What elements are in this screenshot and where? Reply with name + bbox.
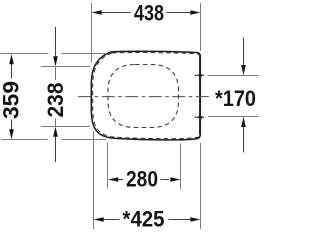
svg-text:438: 438 — [134, 0, 164, 25]
extension line 359 top — [1, 53, 106, 55]
dim 238 arrow up — [53, 127, 58, 137]
extension line 280 left — [107, 142, 109, 189]
svg-text:*170: *170 — [215, 86, 256, 111]
extension line 238 top — [41, 66, 90, 68]
dim 438 shaft left — [102, 12, 131, 14]
dim 280 shaft left — [117, 179, 123, 181]
dim 359 arrow down — [9, 129, 14, 139]
extension line 238 bottom — [41, 126, 90, 128]
seat right edge seam solid — [199, 56, 201, 135]
hinge mark bottom tick — [195, 116, 205, 118]
extension line 170 top — [208, 75, 258, 77]
hinge mark top blob — [198, 73, 204, 77]
dim 238 shaft above — [55, 27, 57, 57]
extension line 280 right — [180, 144, 182, 190]
dim 170 shaft above — [243, 38, 245, 66]
extension line 438 left — [91, 3, 93, 63]
svg-text:238: 238 — [43, 83, 68, 118]
dim 359 shaft upper — [11, 62, 13, 79]
svg-text:359: 359 — [0, 81, 23, 119]
dim 359 arrow up — [9, 54, 14, 64]
extension line 425 left — [93, 131, 95, 229]
dim 438 arrow left — [92, 10, 102, 14]
dim 438 shaft right — [167, 12, 191, 14]
dim 425 shaft right — [169, 219, 192, 221]
dim 425 shaft left — [103, 219, 120, 221]
dim 170 shaft below — [243, 127, 245, 153]
centerline dash-dot — [78, 96, 211, 98]
extension line 170 bottom — [208, 116, 258, 118]
dim 425 arrow right — [190, 217, 200, 222]
seat inner opening dashed — [108, 65, 179, 128]
dim 238 shaft below — [55, 137, 57, 162]
hinge mark bottom blob — [198, 115, 204, 119]
dim 438 arrow right — [190, 10, 200, 14]
dim 359 shaft lower — [11, 120, 13, 132]
dim 238 arrow down — [53, 56, 58, 66]
dim 238 shaft inner top — [55, 67, 57, 81]
dim 170 arrow down — [241, 65, 246, 75]
svg-text:280: 280 — [126, 166, 158, 191]
halo over 359 bottom extension at 238 shaft — [48, 137, 62, 142]
dim 280 arrow right — [170, 177, 180, 182]
extension line 425/438 right bottom — [200, 143, 202, 229]
dim 170 arrow up — [241, 117, 246, 127]
dim 280 shaft right — [161, 179, 170, 181]
svg-text:*425: *425 — [123, 206, 165, 229]
extension line 438/425 right top — [200, 3, 202, 51]
dim 425 arrow left — [94, 217, 104, 222]
hinge mark top tick — [195, 74, 205, 76]
seat outer outline — [91, 51, 200, 140]
dim 238 shaft inner bottom — [55, 119, 57, 127]
halo over 359 top extension at 238 arrow — [49, 51, 62, 56]
dim 280 arrow left — [108, 177, 118, 182]
extension line 359 bottom — [1, 139, 106, 141]
seat lid seam dashed inset — [93, 53, 200, 139]
